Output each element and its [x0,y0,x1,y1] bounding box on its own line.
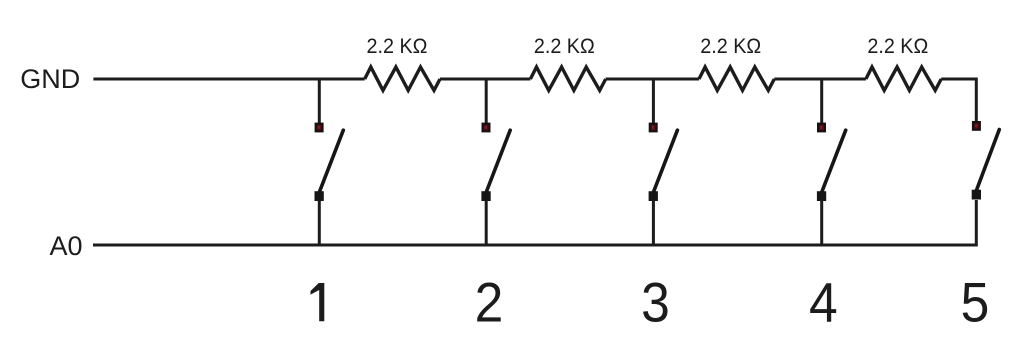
wire GND rail segment 2 [440,78,530,81]
wire GND rail segment 3 [606,78,699,81]
switch S4 [817,79,846,245]
wire stub from GND rail to S2 top terminal [485,79,488,123]
S3 top terminal square (red pad) [649,123,658,133]
S1 switch arm [319,130,344,193]
wire GND rail segment 4 [774,78,866,81]
svg-text:2.2 KΩ: 2.2 KΩ [700,34,761,58]
resistor R1 [365,67,440,90]
wire stub from S3 lower terminal to A0 rail [652,200,655,245]
svg-text:2.2 KΩ: 2.2 KΩ [367,34,428,58]
svg-text:2.2 KΩ: 2.2 KΩ [534,34,595,58]
wire stub from GND rail to S3 top terminal [652,79,655,123]
resistor R3 [699,67,774,90]
wire A0 rail with corner up to switch 5 [93,200,976,245]
S4 lower terminal square [817,191,826,201]
svg-text:3: 3 [641,272,670,334]
resistor R2 [530,67,605,90]
wire stub from GND rail to S1 top terminal [318,79,321,123]
resistor R4 [866,67,941,90]
S5 lower terminal square [972,190,981,200]
S2 lower terminal square [481,191,490,201]
S4 top terminal square (red pad) [817,123,826,133]
svg-text:4: 4 [809,272,838,334]
S3 switch arm [653,130,678,193]
switch S1 [315,79,344,245]
svg-text:2.2 KΩ: 2.2 KΩ [867,34,928,58]
S1 lower terminal square [315,191,324,201]
S5 top terminal square (red pad) [972,121,981,131]
S3 lower terminal square [649,191,658,201]
switch S5 [972,121,1000,200]
wire GND rail segment 1 [93,78,364,81]
wire stub from S1 lower terminal to A0 rail [318,200,321,245]
S5 switch arm [976,130,1000,193]
wire stub from S2 lower terminal to A0 rail [485,200,488,245]
svg-text:2: 2 [475,272,504,334]
S2 switch arm [486,130,511,193]
S1 top terminal square (red pad) [315,123,324,133]
svg-text:5: 5 [961,272,990,334]
S2 top terminal square (red pad) [482,123,491,133]
svg-text:GND: GND [20,64,80,94]
S4 switch arm [821,130,846,193]
svg-text:A0: A0 [50,231,83,261]
switch S3 [649,79,678,245]
switch position label 1 [311,283,325,321]
wire stub from S4 lower terminal to A0 rail [820,200,823,245]
wire GND rail segment 5 with corner down to switch 5 [941,79,976,122]
wire stub from GND rail to S4 top terminal [820,79,823,123]
switch S2 [481,79,510,245]
